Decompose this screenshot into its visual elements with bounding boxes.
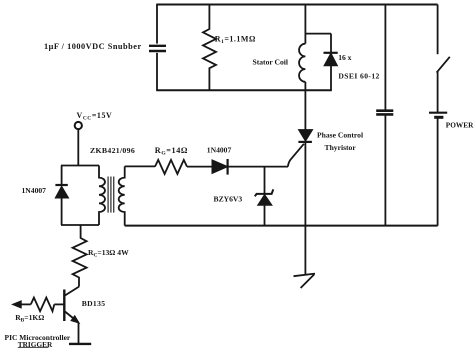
- wire snubber box left edge: [156, 5, 158, 91]
- wire base: [54, 303, 64, 305]
- wire thyristor anode: [304, 82, 306, 130]
- svg-text:Phase Control: Phase Control: [317, 131, 363, 140]
- wire trigger lead: [20, 303, 31, 305]
- inductor stator coil: [299, 44, 305, 82]
- wire Vcc drop: [77, 129, 79, 166]
- wire RG to D3: [187, 166, 212, 168]
- diode D2 16x DSEI 60-12: [324, 34, 338, 91]
- svg-text:1μF / 1000VDC Snubber: 1μF / 1000VDC Snubber: [44, 42, 142, 51]
- wire thyristor cathode down: [304, 142, 306, 275]
- zener DZ BZY6V3: [255, 167, 273, 226]
- wire primary bottom edge: [61, 224, 99, 226]
- svg-text:Thyristor: Thyristor: [325, 143, 357, 152]
- transformer T1 core: [108, 177, 114, 213]
- svg-text:TRIGGER: TRIGGER: [18, 340, 53, 348]
- resistor RG: [155, 160, 187, 174]
- resistor RB: [31, 298, 55, 312]
- ground main: [294, 274, 316, 288]
- wire gate loop top: [125, 165, 155, 167]
- transformer T1 secondary: [119, 166, 125, 225]
- wire stator sub-box top: [305, 33, 331, 35]
- svg-text:R1=1.1MΩ: R1=1.1MΩ: [215, 34, 256, 45]
- svg-text:VCC=15V: VCC=15V: [77, 111, 113, 122]
- node Vcc terminal: [75, 122, 82, 129]
- svg-text:1N4007: 1N4007: [22, 186, 47, 195]
- resistor RC: [73, 225, 87, 287]
- wire thyristor gate: [288, 144, 304, 167]
- svg-text:16 x: 16 x: [338, 53, 351, 62]
- resistor R1: [203, 5, 216, 91]
- capacitor C2 dc link: [376, 5, 393, 226]
- svg-text:BD135: BD135: [82, 299, 106, 308]
- svg-text:1N4007: 1N4007: [207, 146, 232, 155]
- transformer T1 primary: [99, 166, 105, 226]
- arrow trigger input: [13, 301, 20, 307]
- svg-text:DSEI 60-12: DSEI 60-12: [338, 71, 379, 80]
- wire stator branch upper: [304, 5, 306, 44]
- battery POWER: [429, 113, 447, 226]
- diode D3 1N4007 gate: [212, 159, 227, 175]
- svg-text:POWER: POWER: [446, 121, 474, 130]
- thyristor phase control: [298, 130, 312, 142]
- diode D1 1N4007 flyback: [55, 166, 68, 226]
- wire primary top edge: [61, 165, 99, 167]
- wire D3 to gate: [228, 166, 288, 168]
- wire bottom rail: [125, 225, 438, 227]
- svg-text:BZY6V3: BZY6V3: [214, 195, 243, 204]
- transistor Q1 BD135: [64, 287, 79, 344]
- svg-text:Stator Coil: Stator Coil: [253, 58, 289, 67]
- wire snubber box bottom edge: [156, 89, 332, 91]
- ground emitter: [69, 343, 91, 345]
- svg-text:ZKB421/096: ZKB421/096: [90, 146, 135, 155]
- switch S1: [437, 5, 450, 113]
- capacitor C1 1uF/1000VDC snubber: [149, 46, 166, 51]
- wire top rail: [156, 4, 437, 6]
